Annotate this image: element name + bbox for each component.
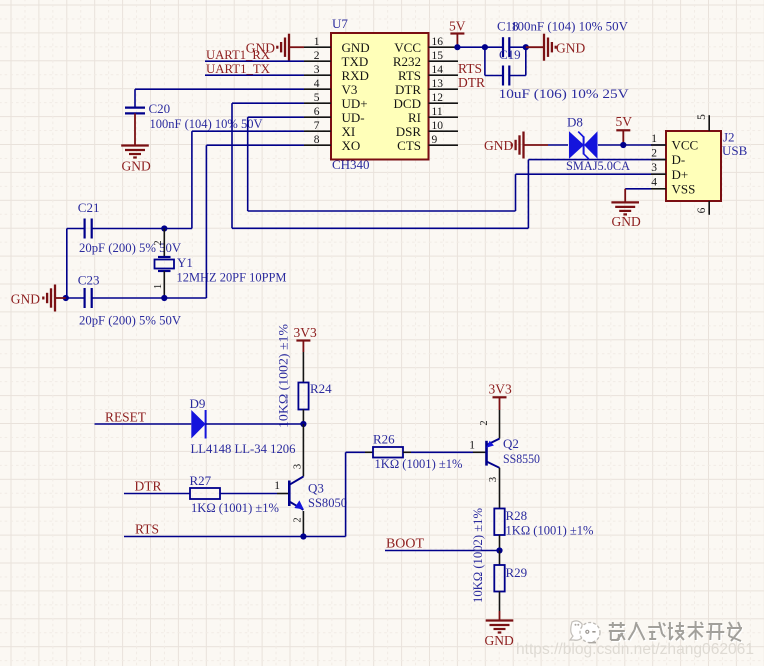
svg-text:5: 5: [696, 114, 708, 120]
svg-text:1KΩ (1001) ±1%: 1KΩ (1001) ±1%: [506, 523, 594, 538]
svg-text:R232: R232: [393, 54, 421, 69]
svg-text:Q2: Q2: [503, 436, 519, 451]
U7 pin 9 CTS: [397, 134, 458, 153]
J2 designator: [723, 130, 735, 145]
wire UD+ pin5 to USB D-: [232, 103, 666, 228]
svg-text:10: 10: [432, 120, 444, 132]
svg-text:3: 3: [293, 464, 304, 469]
svg-text:GND: GND: [484, 138, 513, 153]
svg-text:3V3: 3V3: [489, 382, 512, 397]
svg-text:7: 7: [314, 120, 320, 132]
wire VCC to C18: [457, 46, 503, 48]
svg-text:13: 13: [432, 78, 444, 90]
svg-text:12MHZ 20PF 10PPM: 12MHZ 20PF 10PPM: [177, 270, 287, 285]
wire UD- pin6 to USB D+: [248, 117, 666, 211]
svg-text:2: 2: [153, 240, 164, 245]
resistor R24: [298, 383, 308, 410]
node junction crystal top: [161, 225, 167, 231]
power 3V3 at R24: [294, 325, 317, 352]
node junction C19 branch: [482, 44, 488, 50]
svg-text:10KΩ (1002) ±1%: 10KΩ (1002) ±1%: [276, 324, 291, 428]
capacitor C21: [85, 219, 92, 239]
wire R24 to node: [302, 410, 304, 425]
svg-text:BOOT: BOOT: [386, 536, 425, 551]
svg-text:1KΩ (1001) ±1%: 1KΩ (1001) ±1%: [375, 456, 463, 471]
wire UART1_RX to pin2: [205, 60, 304, 62]
svg-text:6: 6: [696, 207, 708, 213]
svg-text:LL4148 LL-34 1206: LL4148 LL-34 1206: [191, 441, 296, 456]
U7 pin 11 RI: [408, 106, 458, 125]
svg-text:RXD: RXD: [342, 68, 369, 83]
Y1 pin 1 number: [153, 284, 164, 289]
wire node to Q3 collector: [302, 424, 304, 477]
node junction crystal bottom: [161, 295, 167, 301]
wire gnd to C23: [66, 297, 85, 299]
U7 pin 2 TXD: [304, 50, 368, 69]
svg-text:20pF (200) 5% 50V: 20pF (200) 5% 50V: [79, 313, 182, 328]
svg-text:CTS: CTS: [397, 138, 421, 153]
svg-text:2: 2: [314, 50, 320, 62]
C20 designator: [149, 101, 171, 116]
svg-text:TXD: TXD: [342, 54, 369, 69]
wire node to R29: [499, 551, 501, 566]
svg-text:USB: USB: [722, 143, 748, 158]
ground below C20: [121, 113, 151, 173]
wire 3V3 to R24: [302, 352, 304, 383]
power 3V3 at Q2: [489, 382, 512, 411]
power 5V at U7 VCC: [449, 19, 466, 48]
svg-text:9: 9: [432, 134, 438, 146]
resistor R29: [494, 565, 504, 592]
svg-text:3: 3: [488, 477, 499, 482]
svg-text:CH340: CH340: [332, 157, 370, 172]
svg-text:GND: GND: [485, 633, 514, 648]
capacitor C19: [485, 47, 526, 85]
C21 designator: [78, 200, 100, 215]
ground below R29: [485, 621, 514, 649]
U7 pin 16 VCC: [394, 36, 458, 55]
wire R29 to gnd: [499, 592, 501, 621]
wire RESET to D9: [95, 423, 192, 425]
svg-text:DSR: DSR: [396, 124, 422, 139]
svg-text:VCC: VCC: [394, 40, 421, 55]
U7 pin 4 V3: [304, 78, 357, 97]
svg-text:4: 4: [314, 78, 320, 90]
power 5V at USB: [616, 114, 633, 145]
U7 pin 1 GND: [304, 36, 370, 55]
wire R28 to node: [499, 535, 501, 551]
D8 value SMAJ5.0CA: [566, 158, 631, 173]
U7 pin 15 R232: [393, 50, 458, 69]
R29 designator: [506, 565, 528, 580]
svg-text:12: 12: [432, 92, 444, 104]
Q2 pin 2 number: [479, 420, 490, 425]
svg-text:5V: 5V: [449, 19, 466, 34]
R26 value: [375, 456, 463, 471]
svg-text:2: 2: [479, 420, 490, 425]
U7 pin 12 DCD: [394, 92, 458, 111]
svg-text:RTS: RTS: [135, 522, 159, 537]
wire C21 left to gnd column: [67, 229, 85, 299]
svg-text:SS8050: SS8050: [308, 495, 347, 510]
R28 designator: [506, 508, 528, 523]
svg-text:10KΩ (1002) ±1%: 10KΩ (1002) ±1%: [470, 508, 485, 603]
svg-text:5V: 5V: [616, 114, 633, 129]
U7 designator: [332, 16, 348, 31]
svg-text:10uF (106) 10% 25V: 10uF (106) 10% 25V: [499, 86, 630, 101]
wire D9 to node: [206, 423, 304, 425]
J2 pin 6 shield: [696, 201, 709, 215]
connector J2 USB body: [666, 131, 721, 201]
svg-text:100nF (104) 10% 50V: 100nF (104) 10% 50V: [511, 19, 629, 34]
svg-text:SS8550: SS8550: [503, 451, 540, 466]
diode D8 TVS: [569, 131, 598, 159]
wire R27 to Q3 base: [220, 493, 289, 495]
svg-text:DTR: DTR: [395, 82, 421, 97]
svg-text:6: 6: [314, 106, 320, 118]
svg-text:100nF (104) 10% 50V: 100nF (104) 10% 50V: [150, 116, 264, 131]
Y1 designator: [177, 255, 193, 270]
wire DTR to R27: [124, 493, 190, 495]
node junction C19 return: [523, 44, 529, 50]
node BOOT label: [386, 536, 425, 551]
svg-text:VCC: VCC: [672, 138, 699, 153]
capacitor C18: [503, 37, 509, 57]
U7 pin 14 RTS: [398, 64, 458, 83]
svg-text:D9: D9: [190, 396, 206, 411]
svg-text:14: 14: [432, 64, 444, 76]
Q3 pin 3 number: [293, 464, 304, 469]
svg-text:RTS: RTS: [458, 61, 482, 76]
J2 pin 1 VCC: [651, 133, 698, 153]
D9 designator: [190, 396, 206, 411]
node junction VCC 5V: [454, 44, 460, 50]
Q3 part SS8050: [308, 495, 347, 510]
resistor R26: [373, 447, 403, 458]
node DTR label at pin13: [458, 75, 485, 90]
svg-text:R28: R28: [506, 508, 528, 523]
svg-text:3: 3: [651, 162, 657, 174]
svg-text:R24: R24: [310, 381, 332, 396]
R26 designator: [373, 432, 395, 447]
U7 pin 13 DTR: [395, 78, 458, 97]
node UART1_RX label: [206, 47, 271, 62]
wire gnd to D8: [548, 144, 568, 146]
svg-text:Y1: Y1: [177, 255, 193, 270]
transistor Q2: [486, 439, 499, 468]
watermark text 嵌入式技术开发 (drawn strokes): [609, 621, 743, 642]
svg-text:Q3: Q3: [308, 481, 324, 496]
C23 designator: [78, 273, 100, 288]
svg-text:5: 5: [314, 92, 320, 104]
svg-text:GND: GND: [11, 292, 40, 307]
svg-text:1: 1: [651, 133, 657, 145]
wire V3 pin4 to C20: [135, 89, 304, 107]
svg-text:RI: RI: [408, 110, 421, 125]
Q3 designator: [308, 481, 324, 496]
C20 value: [150, 116, 264, 131]
svg-text:GND: GND: [122, 159, 151, 174]
svg-text:D-: D-: [672, 152, 686, 167]
svg-text:UART1_RX: UART1_RX: [206, 47, 271, 62]
wire XI pin7 to crystal top: [92, 131, 304, 228]
node junction R24/D9: [300, 421, 306, 427]
capacitor C20: [125, 108, 145, 114]
D9 value: [191, 441, 296, 456]
svg-text:UD+: UD+: [342, 96, 368, 111]
U7 pin 8 XO: [304, 134, 360, 153]
U7 pin 3 RXD: [304, 64, 369, 83]
wire 3V3 to Q2 collector: [499, 410, 501, 439]
C19 value: [499, 86, 630, 101]
Q2 pin 3 number: [488, 477, 499, 482]
svg-text:RTS: RTS: [398, 68, 421, 83]
wire BOOT: [385, 550, 500, 552]
svg-text:V3: V3: [342, 82, 358, 97]
svg-text:C23: C23: [78, 273, 100, 288]
svg-text:1KΩ (1001) ±1%: 1KΩ (1001) ±1%: [191, 500, 279, 515]
svg-text:1: 1: [153, 284, 164, 289]
R29 value rotated: [470, 508, 485, 603]
node RTS label bottom: [135, 522, 159, 537]
svg-text:C21: C21: [78, 200, 100, 215]
wire RTS up to R26: [346, 452, 373, 536]
svg-text:VSS: VSS: [672, 181, 696, 196]
Q2 pin 1 number: [469, 440, 475, 452]
svg-text:UART1_TX: UART1_TX: [206, 61, 271, 76]
J2 type USB: [722, 143, 748, 158]
C23 value: [79, 313, 182, 328]
svg-text:RESET: RESET: [105, 410, 147, 425]
svg-text:2: 2: [651, 147, 657, 159]
wire XO pin8 to crystal bottom: [92, 145, 304, 298]
svg-text:D8: D8: [567, 115, 583, 130]
svg-text:R26: R26: [373, 432, 395, 447]
Q3 pin 2 number: [293, 517, 304, 522]
node RESET label: [105, 410, 147, 425]
J2 pin 4 VSS: [651, 177, 695, 197]
J2 pin 3 D+: [651, 162, 688, 182]
svg-text:U7: U7: [332, 16, 348, 31]
svg-text:https://blog.csdn.net/zhang062: https://blog.csdn.net/zhang062061: [516, 641, 754, 658]
C21 value: [79, 240, 182, 255]
ground left of C23: [11, 285, 66, 312]
capacitor C23: [85, 288, 92, 308]
wire D8 to USB VCC: [598, 144, 666, 146]
svg-text:GND: GND: [556, 41, 585, 56]
svg-text:1: 1: [274, 480, 280, 492]
C18 designator: [497, 19, 519, 34]
Q3 pin 1 number: [274, 480, 280, 492]
C18 value: [511, 19, 629, 34]
svg-text:DTR: DTR: [135, 479, 162, 494]
R27 value: [191, 500, 279, 515]
U7 pin 5 UD+: [304, 92, 368, 111]
svg-text:R27: R27: [190, 473, 212, 488]
Q2 part SS8550: [503, 451, 540, 466]
svg-text:UD-: UD-: [342, 110, 365, 125]
Y1 value: [177, 270, 287, 285]
wire VSS to gnd: [625, 189, 651, 203]
svg-text:3: 3: [314, 64, 320, 76]
node DTR label bottom: [135, 479, 162, 494]
svg-text:SMAJ5.0CA: SMAJ5.0CA: [566, 158, 631, 173]
svg-text:8: 8: [314, 134, 320, 146]
svg-text:R29: R29: [506, 565, 528, 580]
U7 pin 7 XI: [304, 120, 355, 139]
svg-text:4: 4: [651, 177, 657, 189]
D8 designator: [567, 115, 583, 130]
wire RTS row: [124, 536, 346, 538]
node junction BOOT: [496, 547, 502, 553]
node RTS label at pin14: [458, 61, 482, 76]
svg-text:3V3: 3V3: [294, 325, 317, 340]
svg-text:C20: C20: [149, 101, 171, 116]
J2 pin 2 D-: [651, 147, 685, 167]
watermark url: [516, 641, 754, 658]
R24 designator: [310, 381, 332, 396]
svg-text:DCD: DCD: [394, 96, 421, 111]
U7 pin 6 UD-: [304, 106, 365, 125]
watermark logo icon: [570, 621, 600, 643]
svg-text:GND: GND: [342, 40, 370, 55]
R24 value rotated: [276, 324, 291, 428]
resistor R28: [494, 509, 504, 536]
svg-text:2: 2: [293, 517, 304, 522]
Q2 designator: [503, 436, 519, 451]
U7 pin 10 DSR: [396, 120, 458, 139]
resistor R27: [190, 488, 220, 499]
ground at U7 pin1: [246, 34, 304, 61]
svg-text:C19: C19: [499, 47, 521, 62]
wire UART1_TX to pin3: [205, 74, 304, 76]
Y1 pin 2 number: [153, 240, 164, 245]
svg-text:20pF (200) 5% 50V: 20pF (200) 5% 50V: [79, 240, 182, 255]
svg-text:DTR: DTR: [458, 75, 485, 90]
J2 pin 5 shield: [696, 114, 709, 131]
node junction gnd left: [63, 295, 69, 301]
transistor Q3: [289, 477, 304, 510]
svg-text:D+: D+: [672, 167, 689, 182]
node UART1_TX label: [206, 61, 271, 76]
svg-text:1: 1: [469, 440, 475, 452]
ground below USB: [611, 202, 641, 229]
crystal Y1: [155, 229, 175, 299]
diode D9: [191, 410, 205, 439]
node junction Q3 emitter: [300, 533, 306, 539]
ground right of C18: [526, 34, 586, 61]
svg-text:1: 1: [314, 36, 320, 48]
C19 designator: [499, 47, 521, 62]
ground left of D8: [484, 132, 548, 159]
svg-text:XI: XI: [342, 124, 356, 139]
wire Q3 emitter down: [302, 511, 304, 537]
wire Q2 emitter down: [499, 468, 501, 509]
R28 value: [506, 523, 594, 538]
U7 part name CH340: [332, 157, 370, 172]
svg-text:16: 16: [432, 36, 444, 48]
svg-text:11: 11: [432, 106, 443, 118]
node junction USB 5V: [620, 142, 626, 148]
svg-text:XO: XO: [342, 138, 361, 153]
wire R26 to Q2 base: [403, 451, 487, 453]
op-amp U7 CH340 IC body: [331, 33, 429, 160]
wire C18 to gnd: [509, 46, 526, 48]
svg-text:15: 15: [432, 50, 444, 62]
svg-text:GND: GND: [612, 214, 641, 229]
R27 designator: [190, 473, 212, 488]
